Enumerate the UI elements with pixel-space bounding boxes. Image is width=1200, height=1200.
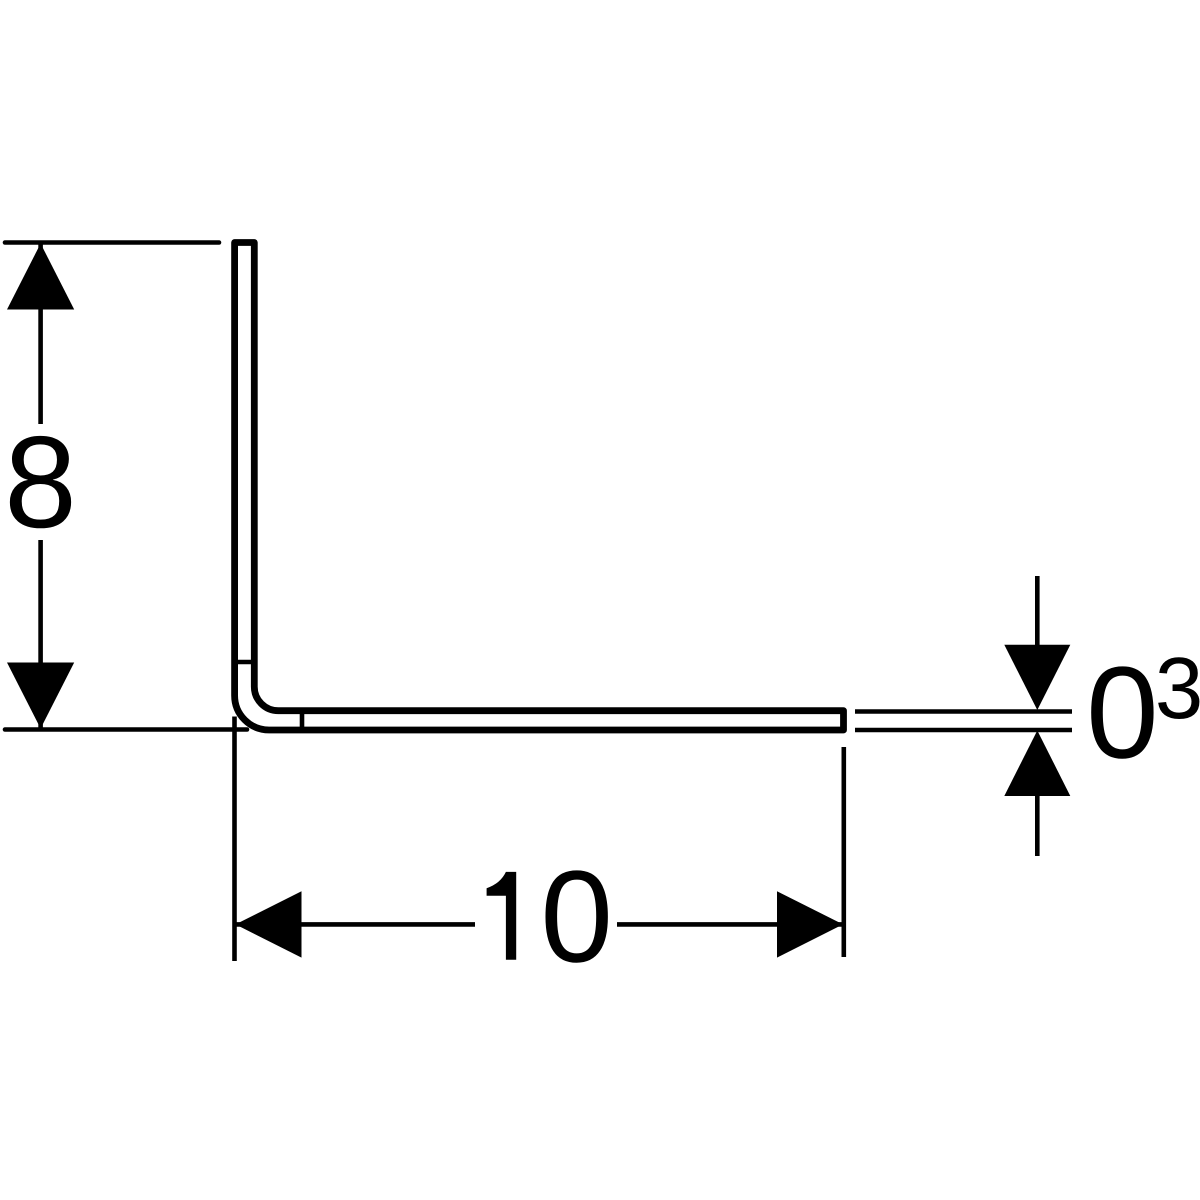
dim 10 : label digit 1 — [487, 872, 517, 960]
dim 0.3 : dimension line below — [1035, 796, 1040, 856]
dim 10 : left extension line — [232, 717, 237, 962]
dim 10 : dimension line right segment — [617, 922, 843, 927]
dim 0.3 : top extension line — [855, 709, 1072, 714]
dim 8 : arrow down — [7, 663, 74, 729]
dim 0.3 : arrow down (points to top line) — [1004, 645, 1070, 710]
svg-text:8: 8 — [4, 409, 77, 555]
dim 8 : dimension line lower segment — [38, 540, 43, 728]
L-profile outline — [235, 243, 844, 731]
svg-text:0: 0 — [1086, 640, 1159, 786]
dim 8 : arrow up — [7, 244, 74, 310]
dim 10 : dimension line left segment — [236, 922, 475, 927]
dim 0.3 : bottom extension line — [855, 728, 1072, 733]
svg-text:0: 0 — [540, 844, 613, 990]
svg-text:3: 3 — [1155, 640, 1200, 737]
dim 8 : top extension line — [5, 240, 219, 245]
dim 10 : right extension line — [841, 747, 846, 957]
bend mark on vertical leg — [233, 660, 256, 665]
dim 10 : arrow right — [777, 891, 843, 957]
dim 10 : arrow left — [236, 891, 302, 957]
bend mark on horizontal leg — [300, 709, 305, 732]
dim 0.3 : arrow up (points to bottom line) — [1004, 731, 1070, 797]
dim 8 : bottom extension line — [5, 727, 247, 732]
dim 8 : dimension line upper segment — [38, 244, 43, 424]
dim 0.3 : dimension line above — [1035, 576, 1040, 645]
